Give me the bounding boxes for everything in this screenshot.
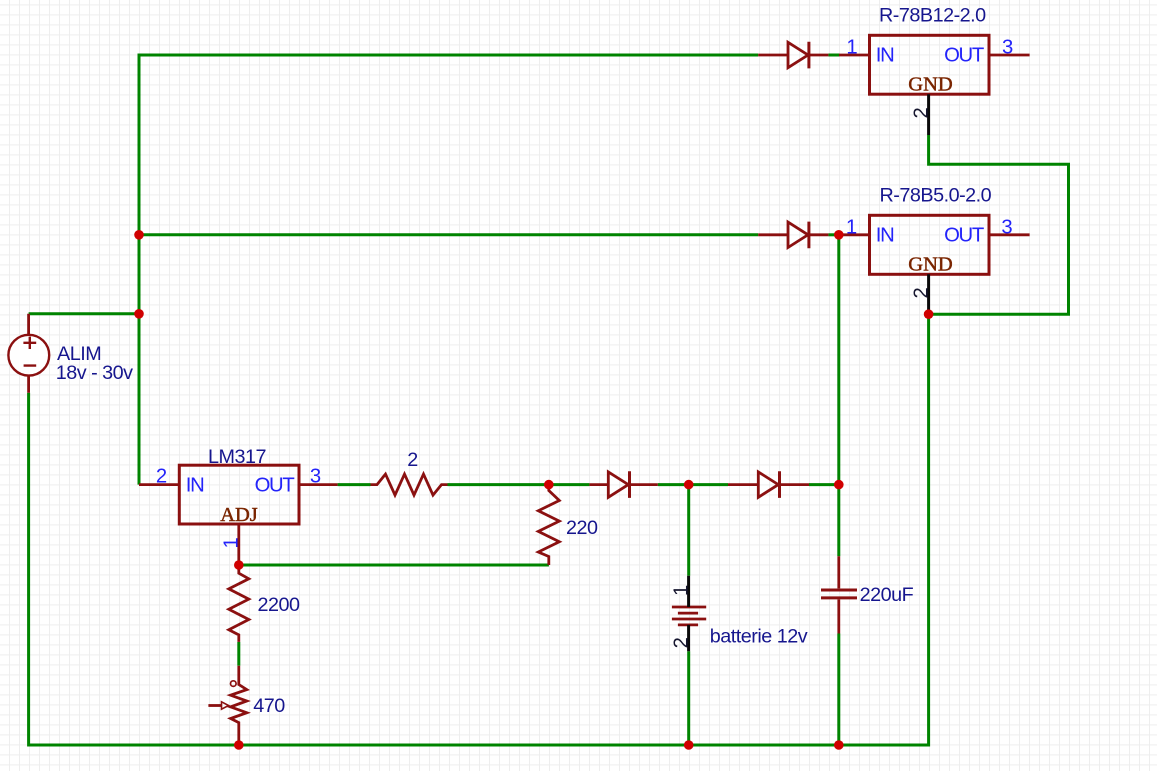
svg-text:GND: GND xyxy=(908,254,952,276)
svg-text:batterie 12v: batterie 12v xyxy=(710,625,808,647)
svg-text:IN: IN xyxy=(876,45,894,67)
svg-text:OUT: OUT xyxy=(944,45,984,67)
svg-text:LM317: LM317 xyxy=(208,446,266,468)
svg-text:2: 2 xyxy=(156,466,167,488)
svg-text:470: 470 xyxy=(253,695,285,717)
svg-text:1: 1 xyxy=(846,37,857,59)
svg-text:2: 2 xyxy=(911,107,933,118)
svg-text:IN: IN xyxy=(186,475,204,497)
svg-text:OUT: OUT xyxy=(944,225,984,247)
svg-text:OUT: OUT xyxy=(255,475,295,497)
svg-text:2: 2 xyxy=(671,637,693,648)
svg-text:3: 3 xyxy=(1001,217,1012,239)
svg-text:2200: 2200 xyxy=(258,594,301,616)
svg-text:1: 1 xyxy=(671,585,693,596)
svg-text:220uF: 220uF xyxy=(860,584,914,606)
svg-text:2: 2 xyxy=(911,287,933,298)
svg-text:2: 2 xyxy=(407,449,418,471)
svg-text:18v - 30v: 18v - 30v xyxy=(56,362,133,384)
svg-text:GND: GND xyxy=(908,74,952,96)
svg-text:ADJ: ADJ xyxy=(220,504,258,526)
svg-text:IN: IN xyxy=(876,225,894,247)
svg-text:220: 220 xyxy=(566,517,598,539)
svg-text:1: 1 xyxy=(221,537,243,548)
svg-text:3: 3 xyxy=(1002,37,1013,59)
svg-text:R-78B5.0-2.0: R-78B5.0-2.0 xyxy=(880,185,992,207)
svg-text:3: 3 xyxy=(310,466,321,488)
svg-text:R-78B12-2.0: R-78B12-2.0 xyxy=(879,5,986,27)
svg-text:1: 1 xyxy=(846,217,857,239)
